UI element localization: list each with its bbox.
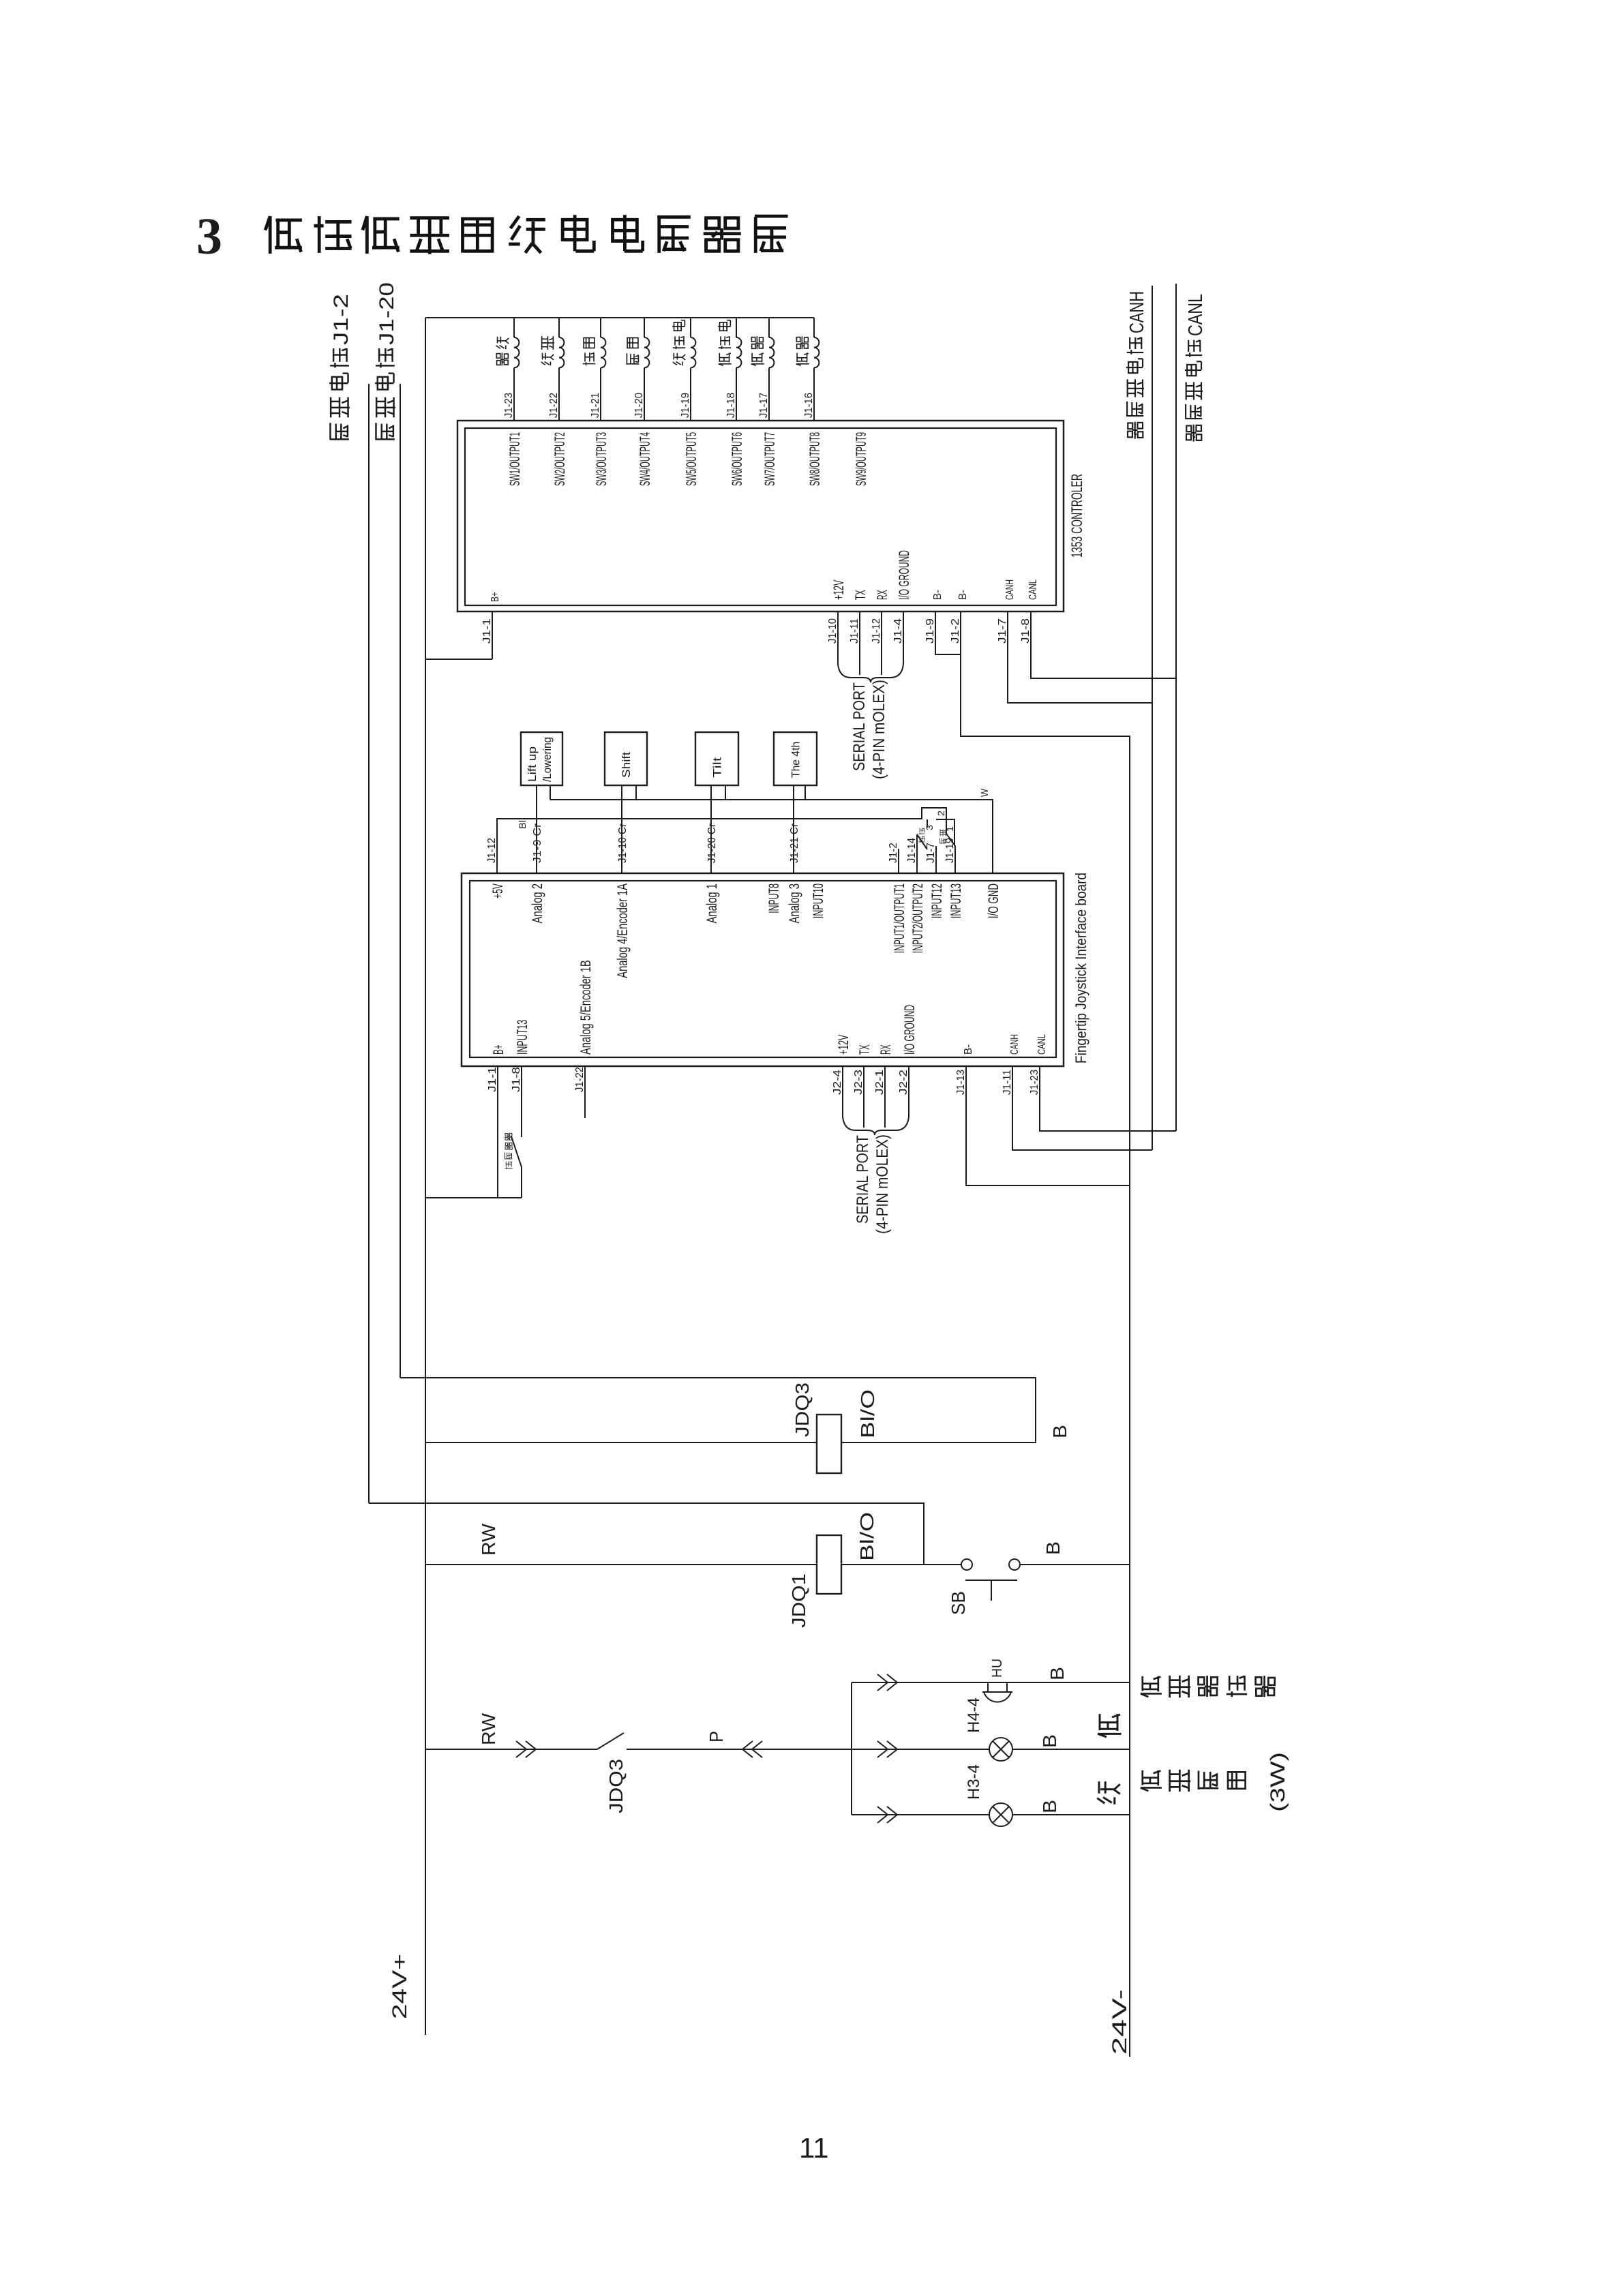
svg-text:J1-20 Cr: J1-20 Cr (706, 823, 718, 863)
label (4-PIN mOLEX) (board) (873, 1134, 892, 1234)
pin J1-9 stub B- (935, 611, 961, 654)
label J2-1 (874, 1070, 886, 1095)
svg-text:P: P (706, 1731, 727, 1742)
pin label +12V (831, 580, 847, 600)
pin label B- board (963, 1044, 974, 1055)
wire box1 left pin (536, 785, 537, 873)
label J1-20 Cr (706, 823, 718, 863)
pin label I/O GROUND (897, 550, 912, 600)
pin J1-8 horn button wire (511, 1066, 522, 1198)
controller serial wire J1-11 (859, 611, 860, 675)
label J1-12 (486, 838, 498, 863)
pin label J1-18 (725, 393, 737, 418)
label CANL pin (1027, 579, 1039, 600)
label SERIAL PORT (board) (854, 1135, 872, 1224)
label 接牵引电控CANL (1185, 294, 1207, 442)
svg-text:Bl/O: Bl/O (856, 1512, 877, 1561)
pin label SW5/OUTPUT5 (684, 432, 700, 486)
svg-text:J1-17: J1-17 (758, 393, 770, 418)
pin label J1-16 (803, 393, 815, 418)
label Shift (620, 752, 633, 778)
svg-text:J1-10: J1-10 (827, 618, 839, 644)
label B wire buzzer (1047, 1667, 1068, 1680)
label H3-4 (965, 1764, 983, 1800)
pin J1-7 CANH wire to bus (1008, 611, 1152, 703)
label Fingertip Joystick Interface board (1072, 873, 1089, 1063)
svg-text:CANH: CANH (1004, 579, 1016, 600)
wire contact to P node (627, 1749, 852, 1750)
relay contact JDQ3 blade (597, 1733, 624, 1749)
svg-text:JDQ1: JDQ1 (788, 1573, 809, 1628)
label coil 前倾 (583, 338, 595, 366)
label (3W) (1267, 1752, 1289, 1812)
svg-text:J2-4: J2-4 (832, 1070, 843, 1095)
valve coil L2 下降 (559, 318, 564, 421)
svg-text:RW: RW (478, 1712, 499, 1745)
valve coil L7 属具 (769, 318, 774, 421)
label J1-19 (944, 838, 956, 863)
svg-text:Bl/O: Bl/O (857, 1389, 878, 1438)
pin label RX board (878, 1044, 894, 1055)
svg-text:RX: RX (875, 590, 890, 600)
label J1-23 (1029, 1070, 1040, 1095)
label J1-11 (1002, 1070, 1013, 1095)
wire SB to B- line (1020, 1564, 1130, 1565)
label Bl/O wire JDQ1 (856, 1512, 877, 1561)
svg-text:INPUT13: INPUT13 (948, 883, 964, 918)
svg-text:(3W): (3W) (1267, 1752, 1289, 1812)
interface board outer box (462, 873, 1064, 1066)
net 牵引电控J1-2 bus line (368, 384, 370, 1503)
svg-text:J1-11: J1-11 (849, 618, 860, 644)
pin J1-22 stub (584, 1066, 586, 1118)
blade J1-19 to pin2 (946, 834, 955, 846)
svg-text:I/O GROUND: I/O GROUND (902, 1005, 918, 1055)
pin J1-11 CANH wire (1012, 1066, 1152, 1150)
svg-text:J1-22: J1-22 (574, 1067, 586, 1092)
svg-text:B: B (1049, 1425, 1070, 1438)
interface board inner box (470, 881, 1056, 1057)
connector chevrons buzzer branch (877, 1674, 897, 1691)
The 4th switch box (774, 732, 817, 785)
svg-text:3: 3 (196, 208, 222, 265)
junction riser for lamp branches (851, 1682, 852, 1815)
label 24V+ (389, 1954, 411, 2019)
wire J1-2 bus branch to SB node (369, 1503, 924, 1565)
pin J1-8 CANL wire to bus (1031, 611, 1176, 678)
svg-text:J1-19: J1-19 (680, 393, 691, 418)
label J1-10 Cr (617, 823, 629, 863)
svg-text:(4-PIN mOLEX): (4-PIN mOLEX) (870, 680, 888, 779)
label 倒车灯白 (1141, 1770, 1246, 1792)
svg-text:3: 3 (924, 825, 935, 830)
svg-text:J1-8: J1-8 (1020, 618, 1032, 644)
label J1-21 Cr (789, 823, 800, 863)
svg-text:+12V: +12V (836, 1035, 852, 1055)
label B wire right lamp (1039, 1734, 1060, 1748)
svg-text:J1-7: J1-7 (925, 843, 937, 863)
label 接牵引电控CANH (1126, 291, 1148, 439)
svg-text:J2-3: J2-3 (853, 1070, 864, 1095)
svg-text:CANL: CANL (1036, 1034, 1048, 1055)
label Bl wire (517, 820, 528, 829)
svg-text:Analog 1: Analog 1 (704, 883, 720, 923)
svg-text:Tilt: Tilt (711, 757, 724, 778)
svg-text:24V-: 24V- (1109, 1989, 1131, 2055)
pin label J1-17 (758, 393, 770, 418)
label HU (990, 1659, 1005, 1678)
net CANL bus line (1175, 284, 1177, 1131)
pin label CANH board (1009, 1034, 1021, 1055)
svg-text:J1-2: J1-2 (330, 294, 352, 345)
label coil 属具 (796, 336, 809, 365)
pin J1-19 stub (954, 846, 956, 873)
pin label INPUT10 (811, 883, 826, 918)
label P wire (706, 1731, 727, 1742)
label SERIAL PORT (controller) (850, 682, 869, 771)
svg-text:B-: B- (932, 590, 944, 600)
page title 指尖操纵系统电气原理图 (265, 215, 787, 254)
svg-text:J1-18: J1-18 (725, 393, 737, 418)
label J1-9 (924, 618, 936, 644)
label B+ pin (490, 592, 501, 602)
svg-text:J1-10 Cr: J1-10 Cr (617, 823, 629, 863)
svg-text:SW8/OUTPUT8: SW8/OUTPUT8 (807, 432, 823, 486)
label 牵引电控J1-2 (329, 294, 352, 440)
label JDQ3 contact (605, 1759, 627, 1813)
label coil 后倾 (627, 338, 639, 365)
label J2-2 (898, 1070, 909, 1095)
pin label INPUT13 bottom (515, 1020, 530, 1055)
label coil 属具 (751, 336, 764, 365)
connector chevrons P (742, 1741, 762, 1757)
label H4-4 (965, 1697, 983, 1733)
svg-text:J1-12: J1-12 (871, 618, 882, 644)
pin label Analog 5/Encoder 1B bottom (578, 960, 594, 1055)
pin J1-14 stub (916, 834, 918, 873)
label 右 (1098, 1714, 1121, 1737)
serial port brace (controller) (838, 664, 903, 682)
B+ supply rail 24V+ (425, 318, 426, 2035)
pin label Analog 3 (787, 883, 802, 923)
pin label J1-20 (633, 393, 645, 418)
svg-text:J1-16: J1-16 (803, 393, 815, 418)
pin J1-7 board stub (935, 846, 937, 873)
svg-text:J1-4: J1-4 (892, 618, 904, 644)
B- return line to 24V- (961, 611, 1130, 2057)
svg-text:I/O GND: I/O GND (986, 883, 1002, 918)
label RW lower (478, 1712, 499, 1745)
pin label +5V (490, 883, 506, 898)
pin label SW6/OUTPUT6 (730, 432, 745, 486)
label J2-4 (832, 1070, 843, 1095)
wire box4 right pin (805, 785, 806, 800)
svg-text:B+: B+ (490, 592, 501, 602)
svg-text:Analog 4/Encoder 1A: Analog 4/Encoder 1A (615, 883, 631, 978)
svg-text:J1-20: J1-20 (376, 282, 398, 345)
label J1-1 (481, 618, 493, 644)
svg-text:JDQ3: JDQ3 (792, 1383, 813, 1437)
svg-text:SW6/OUTPUT6: SW6/OUTPUT6 (730, 432, 745, 486)
wire box3 left pin (710, 785, 712, 873)
page number 11 (799, 2132, 829, 2164)
valve coil L4 后倾 (644, 318, 649, 421)
label J1-11 (849, 618, 860, 644)
wire box3 right pin (725, 785, 726, 800)
svg-text:Analog 3: Analog 3 (787, 883, 802, 923)
Lift up/Lowering switch box (521, 732, 562, 785)
pin label INPUT2/OUTPUT2 (910, 883, 926, 953)
relay coil JDQ3 box (817, 1415, 841, 1473)
label J1-8 (1020, 618, 1032, 644)
label J1-22 (574, 1067, 586, 1092)
pin J1-2 board stub (898, 849, 899, 873)
label coil 右侧移 (718, 320, 732, 365)
coil supply rail from B+ (425, 317, 814, 318)
svg-text:J1-8: J1-8 (511, 1067, 522, 1092)
pin label INPUT13 (948, 883, 964, 918)
label pin 2 (935, 811, 946, 816)
svg-text:HU: HU (990, 1659, 1005, 1678)
svg-text:J1-11: J1-11 (1002, 1070, 1013, 1095)
wire left lamp branch (852, 1814, 1130, 1815)
pin label J1-23 (503, 393, 515, 418)
label CANH pin (1004, 579, 1016, 600)
svg-text:INPUT10: INPUT10 (811, 883, 826, 918)
label 左 (1097, 1781, 1120, 1804)
wire JDQ3 coil to J1-20 bus (400, 1378, 1036, 1442)
label JDQ1 (788, 1573, 809, 1628)
label 喇叭按钮 (505, 1133, 513, 1169)
pin J1-23 CANL wire (1040, 1066, 1176, 1131)
pin1 bracket (936, 819, 954, 846)
valve coil L5 左侧移 (691, 318, 695, 421)
pin label SW4/OUTPUT4 (637, 432, 653, 486)
svg-text:TX: TX (857, 1044, 873, 1055)
connector chevrons right lamp (877, 1741, 897, 1757)
Shift switch box (605, 732, 647, 785)
svg-text:INPUT12: INPUT12 (929, 883, 945, 918)
pin label I/O GND (986, 883, 1002, 918)
label 1353 CONTROLER (1068, 474, 1085, 558)
svg-text:TX: TX (853, 590, 869, 600)
pin label Analog 4/Encoder 1A (615, 883, 631, 978)
Tilt switch box (695, 732, 738, 785)
svg-text:J1-1: J1-1 (481, 618, 493, 644)
svg-text:J1-9: J1-9 (924, 618, 936, 644)
label Lift up/Lowering (526, 737, 554, 782)
pushbutton SB contacts (961, 1559, 1020, 1601)
wire RW B+ to JDQ1 coil (425, 1564, 817, 1565)
svg-text:J1-1: J1-1 (487, 1067, 498, 1092)
pin label INPUT12 (929, 883, 945, 918)
wire B+ rail to board (425, 1197, 522, 1198)
svg-text:SB: SB (948, 1591, 969, 1615)
label SB (948, 1591, 969, 1615)
valve coil L3 前倾 (601, 318, 605, 421)
lamp H4-4 (989, 1738, 1012, 1761)
svg-text:+5V: +5V (490, 883, 506, 898)
svg-text:Lift up: Lift up (526, 746, 539, 782)
svg-text:J1-21 Cr: J1-21 Cr (789, 823, 800, 863)
svg-text:SW3/OUTPUT3: SW3/OUTPUT3 (594, 432, 610, 486)
svg-text:H4-4: H4-4 (965, 1697, 983, 1733)
label 前进 (918, 828, 924, 843)
svg-text:Fingertip Joystick Interface b: Fingertip Joystick Interface board (1072, 873, 1089, 1063)
svg-text:CANH: CANH (1126, 291, 1148, 333)
svg-text:INPUT13: INPUT13 (515, 1020, 530, 1055)
svg-text:J1-13: J1-13 (955, 1070, 967, 1095)
controller serial wire J1-12 (881, 611, 882, 675)
board serial wire J2-1 (884, 1066, 886, 1128)
valve coil L6 右侧移 (736, 318, 741, 421)
label B wire SB row (1042, 1541, 1064, 1555)
svg-text:CANH: CANH (1009, 1034, 1021, 1055)
label coil 下降 (541, 336, 554, 365)
label Bl/O wire JDQ3 (857, 1389, 878, 1438)
svg-text:JDQ3: JDQ3 (605, 1759, 627, 1813)
label B- pin 1 (932, 590, 944, 600)
pin label CANL board (1036, 1034, 1048, 1055)
pin label +12V board (836, 1035, 852, 1055)
label J1-2 (950, 618, 961, 644)
valve coil L8 属具 (814, 318, 819, 421)
pin J1-1 board wire B+ (497, 1066, 498, 1198)
svg-text:J2-1: J2-1 (874, 1070, 886, 1095)
label The 4th (790, 742, 802, 778)
svg-text:INPUT1/OUTPUT1: INPUT1/OUTPUT1 (892, 883, 907, 953)
svg-text:B: B (1042, 1541, 1064, 1555)
lamp H3-4 (989, 1803, 1012, 1826)
svg-text:J1-20: J1-20 (633, 393, 645, 418)
label (4-PIN mOLEX) (controller) (870, 680, 888, 779)
label coil 起升 (496, 337, 509, 365)
svg-text:2: 2 (935, 811, 946, 816)
relay coil JDQ1 box (817, 1535, 841, 1594)
svg-text:J1-22: J1-22 (548, 393, 560, 418)
pin label J1-19 (680, 393, 691, 418)
label W wire (979, 788, 991, 797)
svg-text:B: B (1047, 1667, 1068, 1680)
wire +5V line (497, 808, 946, 873)
net 牵引电控J1-20 bus line (400, 384, 401, 1378)
wire box4 left pin (793, 785, 794, 873)
valve coil L1 起升 (514, 318, 519, 421)
svg-text:Analog 5/Encoder 1B: Analog 5/Encoder 1B (578, 960, 594, 1055)
label pin 3 (924, 825, 935, 830)
label J1-2 board (888, 843, 899, 863)
wire buzzer branch (852, 1682, 1130, 1683)
svg-text:J1-7: J1-7 (997, 618, 1008, 644)
svg-text:INPUT8: INPUT8 (766, 883, 782, 913)
label 后退 (940, 830, 946, 844)
svg-text:B+: B+ (491, 1044, 507, 1055)
svg-text:RW: RW (478, 1523, 499, 1556)
board serial wire J2-4 (842, 1066, 843, 1117)
svg-text:Shift: Shift (620, 752, 633, 778)
buzzer HU (982, 1682, 1012, 1702)
pin label RX (875, 590, 890, 600)
label coil 左侧移 (672, 320, 685, 365)
svg-text:SW1/OUTPUT1: SW1/OUTPUT1 (507, 432, 523, 486)
svg-text:W: W (979, 788, 991, 797)
pin label SW8/OUTPUT8 (807, 432, 823, 486)
wire box1 right pin (550, 785, 551, 800)
label pin 1 (944, 826, 955, 832)
svg-text:SW4/OUTPUT4: SW4/OUTPUT4 (637, 432, 653, 486)
pin label TX (853, 590, 869, 600)
svg-text:J1-2: J1-2 (950, 618, 961, 644)
I/O GND collector wire (550, 800, 993, 873)
board serial wire J2-3 (863, 1066, 864, 1128)
svg-text:J1-23: J1-23 (503, 393, 515, 418)
label B- pin 2 (957, 590, 969, 600)
wire right lamp branch (852, 1749, 1130, 1750)
pin J1-13 B- wire (966, 1066, 1130, 1185)
label J2-3 (853, 1070, 864, 1095)
label Tilt (711, 757, 724, 778)
pin label SW2/OUTPUT2 (552, 432, 568, 486)
label J1-13 (955, 1070, 967, 1095)
svg-text:(4-PIN mOLEX): (4-PIN mOLEX) (873, 1134, 892, 1234)
svg-text:SERIAL PORT: SERIAL PORT (854, 1135, 872, 1224)
wire B+ to JDQ3 coil (425, 1442, 817, 1443)
label 牵引电控J1-20 (375, 282, 398, 440)
svg-text:J1-14: J1-14 (906, 838, 918, 863)
pin label SW7/OUTPUT7 (762, 432, 778, 486)
svg-text:J1-23: J1-23 (1029, 1070, 1040, 1095)
section number 3 (196, 208, 222, 265)
serial port brace (board) (843, 1117, 909, 1135)
svg-text:Analog 2: Analog 2 (530, 883, 545, 923)
pin label J1-21 (590, 393, 601, 418)
svg-text:SW2/OUTPUT2: SW2/OUTPUT2 (552, 432, 568, 486)
label J1-12 (871, 618, 882, 644)
svg-text:SW5/OUTPUT5: SW5/OUTPUT5 (684, 432, 700, 486)
svg-text:CANL: CANL (1185, 294, 1207, 336)
svg-text:J1-2: J1-2 (888, 843, 899, 863)
svg-text:SW9/OUTPUT9: SW9/OUTPUT9 (854, 432, 869, 486)
svg-text:Bl: Bl (517, 820, 528, 829)
svg-text:J1-12: J1-12 (486, 838, 498, 863)
label J1-7 board (925, 843, 937, 863)
svg-text:I/O GROUND: I/O GROUND (897, 550, 912, 600)
label 24V- (1109, 1989, 1131, 2055)
controller U1 1353 outer box (457, 421, 1064, 611)
svg-text:B: B (1039, 1800, 1060, 1813)
svg-text:B-: B- (957, 590, 969, 600)
pin label TX board (857, 1044, 873, 1055)
label B wire left lamp (1039, 1800, 1060, 1813)
pin label J1-22 (548, 393, 560, 418)
svg-text:J1-9 Cr: J1-9 Cr (532, 823, 543, 863)
pin label SW1/OUTPUT1 (507, 432, 523, 486)
wire B+ rail to J1-1 (425, 659, 492, 660)
board serial wire J2-2 (908, 1066, 909, 1117)
label J1-10 (827, 618, 839, 644)
svg-text:24V+: 24V+ (389, 1954, 411, 2019)
label J1-1 board (487, 1067, 498, 1092)
svg-text:11: 11 (799, 2132, 829, 2164)
svg-text:RX: RX (878, 1044, 894, 1055)
label J1-4 (892, 618, 904, 644)
connector chevrons left lamp (877, 1807, 897, 1823)
svg-text:B-: B- (963, 1044, 974, 1055)
svg-text:CANL: CANL (1027, 579, 1039, 600)
label J1-14 (906, 838, 918, 863)
pin label INPUT8 (766, 883, 782, 913)
svg-text:J2-2: J2-2 (898, 1070, 909, 1095)
